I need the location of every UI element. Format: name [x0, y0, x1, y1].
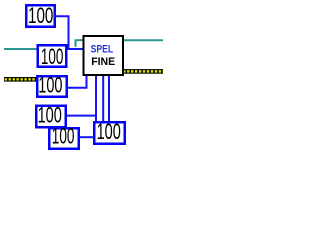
wire: blue vertical SPEL bottom to constant 6 top — [102, 75, 104, 122]
constant C1 "100" — [26, 3, 55, 28]
wire: blue from constant 1 right, down, into SPEL left — [56, 16, 84, 49]
constant C4 "100" — [36, 102, 66, 127]
wire: teal string wire from left edge into constant 2 — [4, 48, 38, 50]
wire: blue vertical SPEL bottom to constant 6 top-left corner — [95, 75, 97, 122]
error wire (dashed black/yellow), left segment — [4, 77, 38, 82]
subVI U1 SPEL FINE — [84, 36, 124, 75]
svg-text:100: 100 — [28, 3, 53, 28]
wire: teal horizontal from SPEL right edge to image edge — [124, 39, 164, 41]
wire: blue from constant 3 right, up to SPEL bottom — [68, 75, 87, 88]
svg-text:100: 100 — [41, 44, 63, 69]
wire: blue from constant 5 right into constant 6 left — [80, 136, 94, 138]
constant C2 "100" — [38, 44, 67, 69]
svg-text:SPEL: SPEL — [91, 43, 114, 55]
constant C5 "100" — [49, 124, 79, 149]
svg-text:100: 100 — [97, 119, 121, 144]
wire: teal horizontal into SPEL left edge — [75, 39, 84, 41]
constant C6 "100" — [94, 119, 125, 144]
wire: blue vertical SPEL bottom to constant 6 top (2nd) — [108, 75, 110, 122]
constant C3 "100" — [37, 72, 67, 97]
error wire (dashed black/yellow), right segment — [123, 69, 164, 74]
wire: blue from constant 4 right joining vertical — [67, 115, 95, 117]
svg-text:FINE: FINE — [91, 56, 115, 68]
wire: teal vertical riser right of constant 2 — [75, 40, 77, 47]
svg-text:100: 100 — [52, 124, 75, 149]
svg-text:100: 100 — [38, 72, 62, 97]
